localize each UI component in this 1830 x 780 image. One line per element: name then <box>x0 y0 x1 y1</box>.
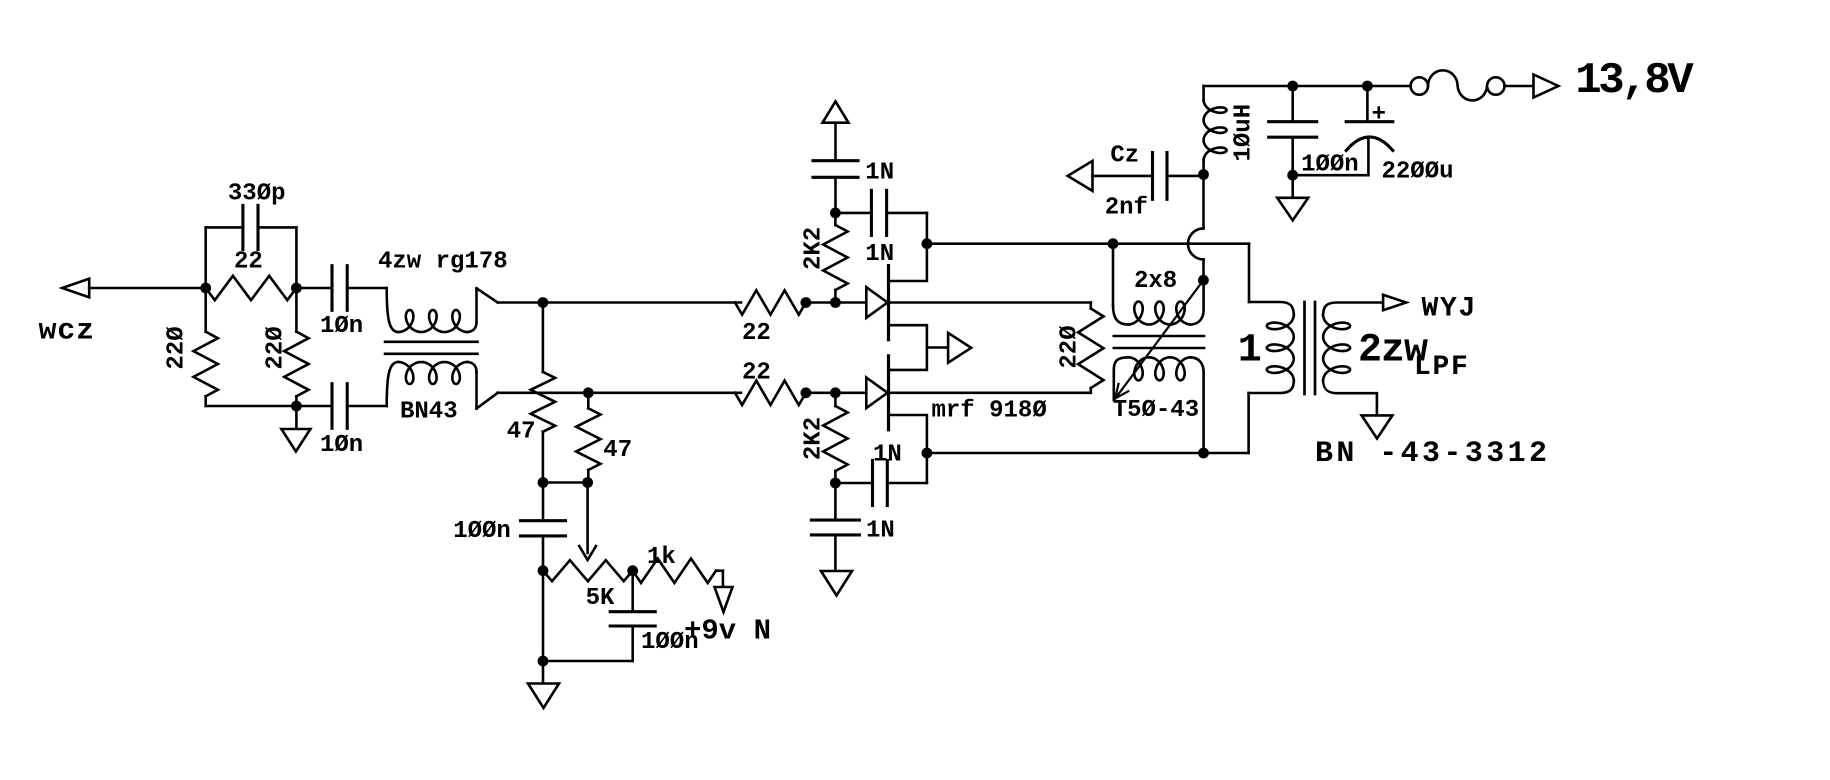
svg-text:2x8: 2x8 <box>1134 268 1177 295</box>
transistor Q1 gate bar <box>887 266 890 340</box>
resistor 22 (input, horizontal) <box>206 276 297 300</box>
ground G6 <box>1362 415 1393 438</box>
label 100n supply <box>1301 152 1359 179</box>
svg-text:22Ø: 22Ø <box>164 326 191 369</box>
label 330p <box>228 181 286 208</box>
ground G5 <box>1277 175 1308 220</box>
transistor Q2 gate arrow <box>866 378 887 409</box>
label 47 first <box>507 419 536 446</box>
svg-text:1N: 1N <box>865 241 894 268</box>
ground G1 <box>281 406 310 452</box>
wire P down <box>834 483 837 571</box>
transformer T1 bottom winding <box>387 362 477 406</box>
svg-text:1Øn: 1Øn <box>320 432 363 459</box>
label 2x8 <box>1134 268 1177 295</box>
svg-text:2nf: 2nf <box>1105 195 1148 222</box>
potentiometer 5K <box>543 560 633 581</box>
transformer T2 core <box>1114 336 1204 348</box>
node E junction <box>583 387 594 398</box>
wire bias vertical <box>542 483 545 662</box>
transistor source arrow <box>948 333 971 363</box>
wire bottom rail <box>206 405 331 408</box>
node J junction <box>538 656 549 667</box>
transformer T3 secondary winding <box>1323 303 1383 416</box>
label 22 gate bottom <box>742 360 771 387</box>
node S junction <box>1108 238 1119 249</box>
capacitor 100n (supply) <box>1269 86 1317 175</box>
node Y junction <box>1287 170 1298 181</box>
node D junction <box>538 297 549 308</box>
resistor 22 (gate bottom) <box>735 381 806 405</box>
label +9v N <box>684 615 771 648</box>
svg-text:LPF: LPF <box>1414 352 1470 383</box>
node H junction <box>538 565 549 576</box>
node U junction <box>1198 275 1209 286</box>
resistor 2K2 (top) <box>823 213 847 303</box>
wire top loop rail left <box>206 226 242 229</box>
node I junction <box>627 565 638 576</box>
node T junction <box>1198 448 1209 459</box>
node A junction <box>200 283 211 294</box>
wire bottom bus to T3 <box>1249 381 1294 454</box>
wire top loop left <box>204 227 207 288</box>
capacitor 1N (bottom rail) <box>811 520 859 535</box>
supply +9v arrow <box>715 571 733 612</box>
label 2zw <box>1358 329 1428 374</box>
transformer T2 top winding <box>1113 244 1204 325</box>
wire wcz to node A <box>89 287 206 290</box>
transformer T1 core <box>385 342 478 354</box>
potentiometer 5K wiper arrow <box>579 483 596 561</box>
label 100n pot <box>641 629 699 656</box>
wire tap to Cz node <box>1202 175 1205 229</box>
ground G3 <box>821 571 852 596</box>
svg-text:22: 22 <box>742 320 771 347</box>
capacitor 100n (pot) <box>610 612 655 626</box>
label 220 left <box>164 326 191 369</box>
capacitor 1N (top rail) <box>813 161 858 178</box>
label T50-43 <box>1113 397 1199 424</box>
label BN43 <box>400 399 458 426</box>
wire hop over drain bus <box>1188 228 1204 259</box>
label 2K2 bottom <box>801 417 828 460</box>
wire cap to drain <box>888 212 927 215</box>
node N junction <box>830 387 841 398</box>
node R junction <box>922 448 933 459</box>
wire top main <box>498 301 741 304</box>
label 10n bottom <box>320 432 363 459</box>
svg-text:Cz: Cz <box>1110 142 1139 169</box>
label 1N bottom rail <box>866 518 895 545</box>
svg-text:22: 22 <box>742 360 771 387</box>
label 1N feedback top <box>865 241 894 268</box>
node P junction <box>830 478 841 489</box>
wire gate top <box>806 301 866 304</box>
label mrf 9180 <box>932 398 1047 425</box>
label 1 (turns) <box>1238 328 1262 373</box>
inductor 10uH <box>1204 86 1227 175</box>
svg-text:+: + <box>1372 101 1386 128</box>
label 4zw rg178 <box>378 249 508 276</box>
resistor 2K2 (bottom) <box>823 393 847 483</box>
capacitor 2200u electrolytic <box>1293 86 1393 175</box>
label 220 output <box>1056 325 1083 368</box>
label 47 second <box>603 437 632 464</box>
label WYJ <box>1422 293 1478 324</box>
label LPF <box>1414 352 1470 383</box>
label 13,8V <box>1575 56 1694 106</box>
wire bottom drain bus <box>927 452 1249 455</box>
capacitor Cz 2nf <box>1068 153 1204 200</box>
transformer T1 top horn <box>477 288 498 322</box>
transformer T1 bottom horn <box>477 372 498 409</box>
node wcz input arrow <box>62 279 89 298</box>
transistor Q1 drain <box>889 213 927 281</box>
svg-text:1Øn: 1Øn <box>320 313 363 340</box>
label 22 gate top <box>742 320 771 347</box>
node O junction <box>830 208 841 219</box>
transformer T3 primary winding <box>1267 315 1294 381</box>
power pin arrow up <box>823 101 849 122</box>
svg-text:13,8V: 13,8V <box>1575 56 1694 106</box>
label 220 right <box>263 326 290 369</box>
wire gate bottom <box>806 391 866 394</box>
transformer T1 top winding <box>387 288 477 332</box>
svg-text:22: 22 <box>234 249 263 276</box>
transformer T2 bottom winding <box>1114 357 1204 453</box>
fuse F1 <box>1411 70 1505 100</box>
svg-text:1ØuH: 1ØuH <box>1231 104 1258 162</box>
capacitor 1N (feedback top) <box>871 190 886 235</box>
svg-text:1N: 1N <box>866 518 895 545</box>
svg-text:47: 47 <box>507 419 536 446</box>
capacitor 10n (top) <box>332 266 347 311</box>
label 100n bias <box>453 518 511 545</box>
svg-text:22ØØu: 22ØØu <box>1382 159 1454 186</box>
node L junction <box>830 297 841 308</box>
label 2200u <box>1382 159 1454 186</box>
wire C1 to T1 <box>349 287 387 290</box>
svg-text:22Ø: 22Ø <box>263 326 290 369</box>
label 2nf <box>1105 195 1148 222</box>
supply 13,8V arrow <box>1534 75 1559 98</box>
svg-text:47: 47 <box>603 437 632 464</box>
svg-text:4zw rg178: 4zw rg178 <box>378 249 508 276</box>
svg-text:2K2: 2K2 <box>800 227 827 270</box>
svg-text:1N: 1N <box>865 160 894 187</box>
wire Q2 drain right <box>889 391 1091 394</box>
transistor Q2 drain <box>889 415 927 483</box>
label 1k <box>647 544 676 571</box>
wire node B to C1 <box>296 287 330 290</box>
node Q junction <box>922 238 933 249</box>
wire top bus to T3 <box>1249 244 1294 315</box>
label 1N feedback bottom <box>873 442 902 469</box>
node F junction <box>538 477 549 488</box>
wire cap to drain bottom <box>889 482 927 485</box>
wire power rail <box>1204 85 1411 88</box>
wire Q1 drain right <box>889 301 1091 304</box>
node K junction <box>801 297 812 308</box>
svg-text:mrf 918Ø: mrf 918Ø <box>932 398 1047 425</box>
label 2K2 top <box>800 227 827 270</box>
wire fuse to arrow <box>1505 85 1534 88</box>
node X junction <box>1362 81 1373 92</box>
wire node P to cap <box>835 482 871 485</box>
transistor source bracket <box>890 325 927 370</box>
wire top drain bus <box>927 242 1249 245</box>
svg-text:1ØØn: 1ØØn <box>641 629 699 656</box>
transistor Q2 gate bar <box>887 356 890 430</box>
node C junction <box>291 401 302 412</box>
resistor 47 (second) <box>576 393 600 483</box>
resistor 47 (first) <box>531 303 555 483</box>
node G junction <box>582 477 593 488</box>
label 5K <box>586 585 615 612</box>
label BN -43-3312 <box>1315 437 1550 471</box>
node WYJ output arrow <box>1383 295 1406 310</box>
wire T2 tap up <box>1202 259 1205 280</box>
node W junction <box>1287 81 1298 92</box>
resistor 220 (right) <box>284 288 308 406</box>
resistor 220 (output) <box>1078 303 1103 393</box>
wire to 1N cap 1 <box>834 123 837 159</box>
wire bias node <box>543 481 588 484</box>
svg-text:BN -43-3312: BN -43-3312 <box>1315 437 1550 471</box>
label 10n top <box>320 313 363 340</box>
transformer T2 slug arrow <box>1115 280 1203 398</box>
transistor source stub <box>927 346 948 349</box>
svg-text:wcz: wcz <box>39 315 95 349</box>
capacitor 1N (feedback bottom) <box>873 461 888 506</box>
svg-text:T5Ø-43: T5Ø-43 <box>1113 397 1199 424</box>
label 1N top rail <box>865 160 894 187</box>
resistor 22 (gate top) <box>735 290 806 314</box>
capacitor 10n (bottom) <box>332 384 347 429</box>
transformer T3 core <box>1305 302 1316 394</box>
svg-text:1ØØn: 1ØØn <box>453 518 511 545</box>
wire node O to cap <box>835 212 869 215</box>
ground G2 <box>528 661 559 708</box>
transistor Q1 gate arrow <box>866 287 887 318</box>
node V junction <box>1198 169 1209 180</box>
label wcz <box>39 315 95 349</box>
svg-text:BN43: BN43 <box>400 399 458 426</box>
svg-text:1N: 1N <box>873 442 902 469</box>
label 10uH <box>1231 104 1258 162</box>
wire top loop right <box>295 227 298 288</box>
wire C2 to T1 <box>349 405 387 408</box>
svg-text:1k: 1k <box>647 544 676 571</box>
wire 1N to node <box>834 179 837 213</box>
resistor 220 (left) <box>194 288 218 406</box>
wire pot cap <box>543 571 633 661</box>
resistor 1k <box>633 559 723 583</box>
node M junction <box>801 387 812 398</box>
svg-text:22Ø: 22Ø <box>1056 325 1083 368</box>
label 22 <box>234 249 263 276</box>
label + polarity <box>1372 101 1386 128</box>
label Cz <box>1110 142 1139 169</box>
wire bottom main <box>498 391 741 394</box>
svg-text:2K2: 2K2 <box>801 417 828 460</box>
capacitor 100n (bias) <box>521 521 566 536</box>
svg-text:33Øp: 33Øp <box>228 181 286 208</box>
svg-text:5K: 5K <box>586 585 615 612</box>
svg-text:1: 1 <box>1238 328 1262 373</box>
wire top loop rail right <box>260 226 297 229</box>
svg-text:WYJ: WYJ <box>1422 293 1478 324</box>
node B junction <box>291 283 302 294</box>
capacitor 330p <box>243 205 258 249</box>
